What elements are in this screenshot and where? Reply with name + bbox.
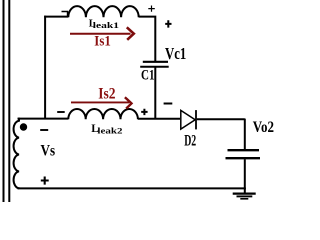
svg-text:leak2: leak2 — [97, 126, 122, 136]
svg-text:Vo2: Vo2 — [253, 119, 274, 136]
svg-text:D2: D2 — [184, 132, 196, 149]
svg-text:Is1: Is1 — [94, 32, 111, 49]
svg-text:C1: C1 — [141, 67, 155, 83]
svg-text:Is2: Is2 — [98, 86, 116, 103]
svg-text:Vs: Vs — [41, 141, 56, 159]
svg-text:Vc1: Vc1 — [165, 44, 186, 63]
svg-text:leak1: leak1 — [93, 21, 119, 30]
